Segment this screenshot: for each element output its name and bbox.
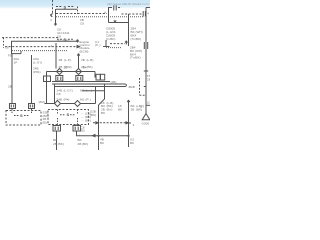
- svg-text:2B: 2B: [131, 108, 135, 112]
- arrow up end: [125, 41, 127, 45]
- splice pack S1 dashes: [56, 6, 74, 8]
- svg-text:4: 4: [133, 123, 135, 127]
- wire bend into connector pair: [95, 72, 96, 78]
- svg-text:GY 2341: GY 2341: [57, 38, 69, 42]
- arrow tick: [114, 20, 116, 22]
- svg-text:(B): (B): [43, 120, 47, 124]
- wire vertical bottom left: [56, 131, 58, 150]
- splice diamond S4: [76, 69, 82, 75]
- svg-text:(P#): (P#): [64, 98, 70, 102]
- svg-text:4: 4: [140, 105, 142, 109]
- splice box top edge: [56, 8, 77, 10]
- splice diamond S5: [55, 101, 61, 107]
- svg-text:(P#1): (P#1): [33, 70, 41, 74]
- splice internal drops: [58, 110, 78, 125]
- T junction symbol: [103, 40, 110, 47]
- wire dashed drop top-left of S splice: [52, 0, 54, 13]
- svg-text:(ECM): (ECM): [80, 49, 89, 53]
- dashed drain vertical: [139, 78, 141, 95]
- svg-text:4: 4: [50, 18, 52, 22]
- svg-text:(B): (B): [81, 129, 85, 133]
- arrowhead: [77, 46, 80, 48]
- bus bar line 3: [55, 86, 126, 88]
- wire drop S7b: [76, 125, 78, 126]
- svg-text:(Tn/BK): (Tn/BK): [130, 56, 141, 60]
- splice label arrows: [60, 114, 75, 116]
- wire vertical to splice S3: [55, 43, 57, 69]
- bus bar line 1: [52, 81, 110, 83]
- svg-text:(P..): (P..): [86, 98, 91, 102]
- pin tick right wire: [146, 104, 150, 106]
- tick on ground wire: [129, 122, 132, 124]
- connector on edge: [44, 76, 51, 82]
- svg-text:(L-..): (L-..): [86, 89, 93, 93]
- splice S marker on bus: [57, 38, 73, 40]
- connector box C2: [76, 76, 83, 82]
- arrow up at box edge: [76, 40, 79, 43]
- wire pigtail horizontal: [109, 22, 129, 24]
- wire drop S7a: [56, 125, 58, 126]
- splice pack S7 dashed box: [48, 110, 89, 125]
- junction tick: [144, 70, 148, 72]
- svg-text:S: S: [64, 4, 67, 9]
- svg-text:(BK): (BK): [87, 65, 93, 69]
- connector box C1: [56, 76, 63, 82]
- svg-text:2B: 2B: [131, 85, 135, 89]
- connector box left B: [29, 104, 35, 109]
- dashed drain horizontal: [140, 94, 146, 96]
- svg-text:(B+): (B+): [107, 108, 113, 112]
- arrowhead: [126, 122, 128, 124]
- splice diamond S6: [75, 101, 81, 107]
- svg-text:M2: M2: [80, 89, 85, 93]
- wire dashed left bus: [2, 37, 58, 39]
- svg-text:4: 4: [51, 44, 53, 48]
- wire dotted CAN bus low: [56, 16, 143, 18]
- wire vertical to splice S4 with arrow: [77, 54, 79, 69]
- bus bar cap: [125, 84, 128, 87]
- svg-text:(L-P): (L-P): [64, 58, 71, 62]
- svg-text:2B (BK): 2B (BK): [53, 142, 64, 146]
- module box B: [55, 84, 96, 104]
- center bus wire through splices: [47, 71, 96, 73]
- svg-text:2B: 2B: [8, 85, 12, 89]
- wire dashed into ground wire: [93, 122, 126, 124]
- ground triangle G305: [142, 114, 150, 120]
- svg-text:1P: 1P: [14, 61, 18, 65]
- svg-text:F5: F5: [8, 54, 12, 58]
- svg-text:2B: 2B: [147, 78, 150, 82]
- wire vertical center right: [104, 84, 106, 99]
- box bottom edge with splices: [45, 103, 96, 105]
- svg-text:(2B): (2B): [111, 80, 117, 84]
- svg-text:← (B+): ← (B+): [81, 119, 91, 123]
- svg-text:(Tn/BK): (Tn/BK): [131, 37, 142, 41]
- arrowhead on bottom wire: [93, 135, 96, 137]
- tick left on right wire: [144, 86, 146, 88]
- wire jog diagonal: [99, 99, 105, 105]
- wire dotted through box: [12, 50, 67, 52]
- wire dashed bus right segment: [122, 13, 143, 15]
- splice S right dashed edge: [77, 7, 79, 15]
- junction dots: [97, 135, 99, 137]
- wire vertical ground branch: [127, 100, 129, 147]
- connector C102 bars: [143, 11, 145, 17]
- svg-text:(6..): (6..): [95, 43, 101, 47]
- node S100 arrow bend: [51, 13, 53, 17]
- wire vertical center bottom: [98, 105, 100, 150]
- bus bar line 2: [52, 83, 126, 85]
- tiny label texts: [5, 4, 153, 146]
- connector box left A: [10, 104, 16, 109]
- svg-text:(in BK): (in BK): [106, 37, 115, 41]
- connector pair boxes: [96, 74, 100, 80]
- svg-text:2B: 2B: [81, 58, 85, 62]
- svg-text:(8M): (8M): [39, 100, 45, 104]
- splice internal drops left: [12, 109, 32, 114]
- svg-text:18: 18: [5, 46, 9, 50]
- svg-text:(BK): (BK): [90, 113, 96, 117]
- wire drop to bus bar A: [59, 80, 61, 83]
- svg-text:S: S: [20, 113, 23, 118]
- svg-text:24B: 24B: [57, 98, 63, 102]
- wire vertical left B: [31, 55, 33, 104]
- connector box C3: [53, 126, 61, 132]
- svg-text:C8: C8: [57, 92, 61, 96]
- wire vertical left A: [11, 54, 13, 104]
- connector C101 bars: [114, 5, 116, 10]
- svg-text:S: S: [67, 112, 70, 117]
- dotted segment right of T: [106, 47, 122, 49]
- svg-text:4: 4: [79, 134, 81, 138]
- svg-text:2B (BK): 2B (BK): [78, 142, 89, 146]
- svg-text:2B: 2B: [59, 65, 63, 69]
- wire corner to inline connector: [109, 8, 113, 23]
- dashed segment mid right: [110, 43, 125, 45]
- svg-text:(L-GY): (L-GY): [33, 61, 42, 65]
- svg-text:(2B): (2B): [147, 101, 150, 105]
- svg-text:C8: C8: [80, 22, 84, 26]
- wire vertical right-mid: [128, 14, 130, 46]
- wire mid horizontal: [82, 90, 105, 92]
- connector box C4: [73, 126, 81, 132]
- svg-text:4: 4: [147, 12, 149, 16]
- svg-text:(L-GY): (L-GY): [64, 89, 73, 93]
- wire vertical from S1: [54, 9, 56, 26]
- svg-text:4: 4: [104, 11, 106, 15]
- center left edge wire: [46, 72, 48, 104]
- ECM box top edge: [12, 41, 78, 54]
- arrowhead mid: [96, 122, 98, 124]
- splice pack S2 dashed box: [6, 111, 41, 126]
- svg-text:M1: M1: [80, 98, 85, 102]
- wire bottom horizontal: [77, 131, 129, 136]
- inline connector bars right mid: [144, 42, 147, 49]
- svg-text:2B: 2B: [81, 65, 85, 69]
- svg-text:(L-B): (L-B): [87, 58, 94, 62]
- svg-text:(P#2): (P#2): [64, 65, 72, 69]
- pin stub: [12, 51, 21, 54]
- splice diamond S3: [57, 69, 63, 75]
- svg-text:G305: G305: [142, 122, 150, 126]
- wire dashed through box: [5, 46, 77, 48]
- wire dash after connector: [118, 7, 122, 9]
- wire drop to bus bar B: [78, 80, 80, 83]
- wire right vertical main: [145, 8, 147, 115]
- splice label arrows: [14, 115, 29, 117]
- wire dashed CAN bus high: [56, 13, 107, 15]
- svg-text:2B: 2B: [59, 58, 63, 62]
- wire dashed left drop: [3, 38, 5, 48]
- wire corner top right: [146, 7, 150, 9]
